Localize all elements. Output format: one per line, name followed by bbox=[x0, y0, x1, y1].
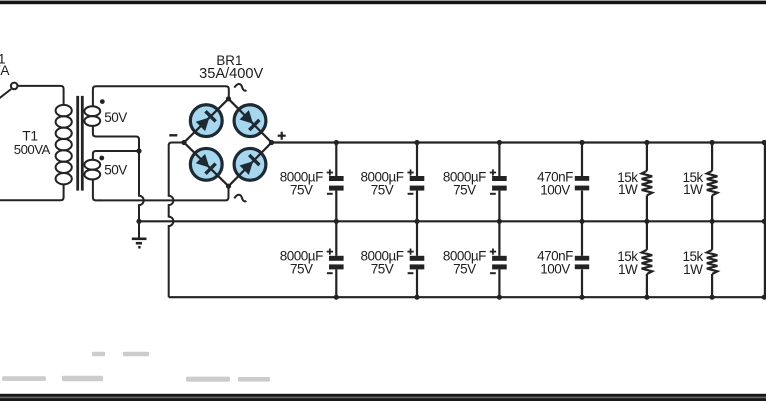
phase dot winding 1 bbox=[100, 99, 105, 104]
svg-text:75V: 75V bbox=[290, 262, 313, 277]
minus label at bridge bbox=[169, 134, 177, 136]
faint caption marks bbox=[2, 352, 270, 382]
capacitor C7 8000uF 75V bbox=[498, 221, 500, 256]
AC tilde bottom bbox=[234, 194, 247, 202]
capacitor C8 470nF 100V bbox=[581, 221, 583, 256]
capacitor C4 470nF 100V bbox=[581, 143, 583, 177]
secondary winding 1 (50V top) bbox=[84, 86, 228, 151]
svg-text:1W: 1W bbox=[618, 182, 638, 197]
svg-text:35A/400V: 35A/400V bbox=[199, 66, 263, 82]
svg-text:50V: 50V bbox=[104, 163, 127, 178]
resistor R3 15k 1W bbox=[646, 221, 648, 250]
wire output bus right edge bbox=[764, 142, 766, 299]
ground symbol bbox=[132, 221, 147, 247]
wire mains neutral to primary bbox=[0, 184, 64, 200]
resistor R2 15k 1W bbox=[711, 143, 713, 171]
bridge diamond wires bbox=[184, 99, 272, 186]
top border bbox=[0, 1, 766, 5]
wire mains live to primary bbox=[18, 86, 64, 105]
diode BR1b bbox=[239, 110, 260, 131]
rail minus (bottom) bbox=[169, 296, 765, 298]
resistor R4 15k 1W bbox=[711, 221, 713, 250]
diode BR1a bbox=[195, 110, 216, 131]
capacitor C6 8000uF 75V bbox=[416, 221, 418, 256]
diode BR1d bbox=[239, 154, 260, 175]
svg-text:1W: 1W bbox=[618, 262, 638, 277]
bottom border bbox=[0, 394, 766, 401]
capacitor C3 8000uF 75V bbox=[498, 143, 500, 177]
svg-text:75V: 75V bbox=[453, 262, 476, 277]
rail plus (top) bbox=[272, 141, 766, 143]
bridge diode circles bbox=[190, 105, 222, 137]
switch S1 terminal bbox=[11, 83, 18, 90]
capacitor C5 8000uF 75V bbox=[335, 221, 337, 256]
svg-text:75V: 75V bbox=[290, 183, 313, 198]
phase dot winding 2 bbox=[99, 156, 104, 161]
svg-text:100V: 100V bbox=[540, 183, 570, 198]
transformer T1 core bbox=[76, 96, 79, 191]
bridge node dots bbox=[226, 96, 231, 101]
svg-text:500VA: 500VA bbox=[14, 142, 51, 157]
svg-text:7A: 7A bbox=[0, 63, 10, 78]
wire AC lower: winding 2 to bridge bottom bbox=[100, 186, 229, 200]
secondary winding 2 (50V bottom) bbox=[84, 151, 139, 200]
wire bridge minus to bottom rail (hops over AC wire and 0V rail) bbox=[169, 143, 184, 298]
svg-text:1W: 1W bbox=[683, 182, 703, 197]
svg-text:1W: 1W bbox=[683, 262, 703, 277]
capacitor C2 8000uF 75V bbox=[416, 143, 418, 177]
node 0V rail left end bbox=[136, 219, 141, 224]
capacitor C1 8000uF 75V bbox=[335, 143, 337, 177]
svg-text:50V: 50V bbox=[104, 110, 127, 125]
resistor R1 15k 1W bbox=[646, 143, 648, 171]
svg-text:75V: 75V bbox=[371, 183, 394, 198]
rail 0V (middle) bbox=[139, 220, 765, 222]
svg-text:75V: 75V bbox=[371, 262, 394, 277]
diode BR1c bbox=[195, 153, 216, 174]
node center tap bbox=[136, 148, 141, 153]
plus label at bridge output bbox=[278, 135, 286, 137]
transformer T1 primary winding bbox=[56, 105, 72, 184]
junction dots on rails bbox=[334, 140, 339, 145]
switch S1 lever bbox=[0, 89, 11, 99]
svg-text:75V: 75V bbox=[453, 183, 476, 198]
AC tilde top bbox=[234, 83, 247, 91]
wire center tap to 0V rail (hops over AC wire) bbox=[139, 151, 144, 221]
svg-text:100V: 100V bbox=[540, 262, 570, 277]
